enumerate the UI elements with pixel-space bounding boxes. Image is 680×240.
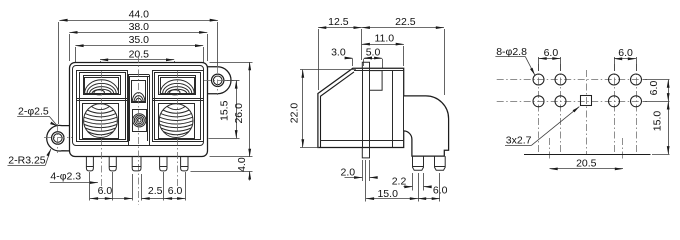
- right mounting ear (R3.25): [206, 67, 231, 94]
- footprint dim 6.0 vertical: [643, 79, 670, 81]
- front view: overall width dimension 44.0: [58, 22, 60, 124]
- center column top window: [132, 81, 146, 103]
- footprint right group centerline: [622, 138, 624, 160]
- svg-text:8-φ2.8: 8-φ2.8: [496, 46, 527, 58]
- svg-text:3.0: 3.0: [331, 46, 346, 58]
- svg-text:22.5: 22.5: [395, 16, 416, 28]
- right block centerline: [177, 71, 179, 190]
- front view: body width dimension 38.0: [69, 34, 71, 61]
- footprint hole phi2.8 #3: [609, 74, 620, 85]
- footprint hole phi2.8 #5: [533, 96, 544, 107]
- side dim 2.0 (peg): [362, 160, 364, 181]
- right upper spring eye: [170, 90, 180, 95]
- svg-text:3x2.7: 3x2.7: [506, 135, 532, 147]
- side body front face edge: [392, 71, 394, 148]
- svg-text:6.0: 6.0: [544, 47, 559, 59]
- svg-text:38.0: 38.0: [129, 21, 150, 33]
- front pin 4: [160, 157, 167, 171]
- side body slant inner line: [320, 72, 354, 97]
- front pin 1: [86, 157, 93, 171]
- left upper spring contact arcs: [85, 80, 119, 94]
- right ear centerlines: [204, 80, 234, 82]
- right side dim 4.0 (pin length): [191, 171, 253, 173]
- footprint board edge line: [524, 154, 651, 156]
- front pin 3: [132, 157, 141, 171]
- side view dim 5.0: [363, 59, 365, 66]
- svg-text:11.0: 11.0: [374, 33, 394, 45]
- svg-text:12.5: 12.5: [328, 16, 349, 28]
- center contact arch arcs: [132, 93, 145, 102]
- side dim 2.2 (pin width): [412, 173, 414, 191]
- front view: block span dimension 35.0: [75, 47, 77, 65]
- footprint column centerline col 3: [614, 64, 616, 154]
- side body base line: [320, 140, 404, 142]
- left block centerline: [101, 71, 103, 190]
- footprint column centerline col 1: [538, 64, 540, 154]
- left block top window: [84, 76, 121, 95]
- footprint hole phi2.8 #1: [533, 74, 544, 85]
- left coil spring: [84, 104, 118, 138]
- center peg below body: [362, 148, 369, 158]
- side dim 15.0: [365, 160, 367, 202]
- left ear mounting hole 2-phi2.5: [52, 132, 64, 144]
- footprint hole phi2.8 #8: [631, 96, 642, 107]
- footprint dim 15.0 vertical: [652, 154, 670, 156]
- lever cavity rectangle: [370, 71, 383, 91]
- side view dim 3.0: [352, 59, 354, 66]
- right upper spring contact arcs: [160, 80, 194, 94]
- side body left edge inner line: [320, 97, 322, 148]
- footprint row centerline 2: [497, 101, 647, 103]
- center column: [128, 75, 130, 146]
- footprint center square centerline: [586, 70, 588, 154]
- front body outline: [70, 63, 208, 157]
- center column bottom window: [133, 110, 147, 132]
- footprint center square hole 3x2.7: [581, 96, 592, 106]
- side pin 2: [435, 156, 446, 170]
- right block bottom window: [159, 104, 195, 139]
- left block bottom window: [83, 104, 119, 139]
- right side dim 15.5 (ear hole offset): [225, 80, 240, 82]
- svg-text:6.0: 6.0: [433, 185, 448, 197]
- right ear mounting hole 2-phi2.5: [212, 74, 224, 86]
- right coil spring: [159, 104, 193, 138]
- footprint left group centerline: [549, 138, 551, 160]
- right block divider: [153, 98, 204, 100]
- svg-text:2.5: 2.5: [148, 185, 163, 197]
- svg-text:20.5: 20.5: [129, 48, 150, 60]
- center small coil rings: [133, 114, 146, 127]
- side view top dim 12.5: [318, 29, 320, 90]
- svg-text:6.0: 6.0: [618, 47, 633, 59]
- side view body outline: [318, 68, 449, 156]
- side view top dim 22.5: [444, 29, 446, 95]
- left block divider: [77, 98, 128, 100]
- bottom dim 6.0 right (pin pitch): [163, 172, 165, 201]
- svg-text:2-R3.25: 2-R3.25: [8, 154, 46, 166]
- side dim 22.0 (height): [300, 69, 356, 71]
- svg-text:6.0: 6.0: [648, 81, 660, 96]
- footprint hole phi2.8 #4: [631, 74, 642, 85]
- footprint dim 6.0 right group: [614, 57, 616, 71]
- front view: terminal pitch dimension 20.5: [100, 61, 102, 71]
- lever slot verticals: [362, 68, 364, 147]
- footprint dim 20.5: [550, 168, 624, 170]
- left mounting ear (R3.25): [47, 125, 70, 151]
- svg-text:35.0: 35.0: [129, 34, 150, 46]
- footprint row centerline 1: [497, 79, 647, 81]
- svg-text:22.0: 22.0: [289, 103, 301, 124]
- side body right edge lower part: [403, 96, 405, 131]
- svg-text:15.0: 15.0: [377, 188, 398, 200]
- lever top tab: [362, 62, 369, 68]
- svg-text:15.0: 15.0: [652, 111, 664, 132]
- footprint column centerline col 4: [636, 64, 638, 154]
- side view dim 11.0: [403, 46, 405, 66]
- svg-text:2-φ2.5: 2-φ2.5: [18, 106, 49, 118]
- svg-text:20.5: 20.5: [576, 158, 597, 170]
- svg-text:2.2: 2.2: [392, 175, 407, 187]
- front body inner contour: [73, 66, 204, 146]
- bottom dim 6.0 left (pin pitch): [89, 172, 91, 201]
- footprint column centerline col 2: [560, 64, 562, 154]
- side pin 1: [413, 156, 424, 170]
- side dim 6.0 (pin pitch): [439, 173, 441, 202]
- drawing vertical centerline: [138, 56, 140, 205]
- svg-text:4.0: 4.0: [236, 157, 248, 172]
- front pin 2: [109, 157, 116, 171]
- side body top edge inner line: [354, 70, 404, 72]
- bottom dim 2.5 (center pin width): [132, 174, 134, 201]
- footprint hole phi2.8 #7: [609, 96, 620, 107]
- svg-text:26.0: 26.0: [233, 103, 245, 124]
- svg-text:6.0: 6.0: [168, 185, 183, 197]
- right terminal block outer wall: [153, 71, 204, 142]
- footprint hole phi2.8 #6: [555, 96, 566, 107]
- svg-text:4-φ2.3: 4-φ2.3: [50, 170, 81, 182]
- svg-text:5.0: 5.0: [366, 46, 381, 58]
- left upper spring eye: [94, 90, 104, 95]
- svg-text:44.0: 44.0: [129, 9, 150, 21]
- svg-text:15.5: 15.5: [218, 100, 230, 121]
- right block top window: [159, 76, 196, 95]
- svg-text:6.0: 6.0: [98, 185, 113, 197]
- footprint hole phi2.8 #2: [555, 74, 566, 85]
- front pin 5: [181, 157, 188, 171]
- right side dim 26.0 (body height): [210, 62, 253, 64]
- left ear centerlines: [44, 137, 72, 139]
- footprint dim 6.0 left group: [538, 57, 540, 71]
- svg-text:2.0: 2.0: [340, 166, 355, 178]
- left terminal block outer wall: [77, 71, 128, 142]
